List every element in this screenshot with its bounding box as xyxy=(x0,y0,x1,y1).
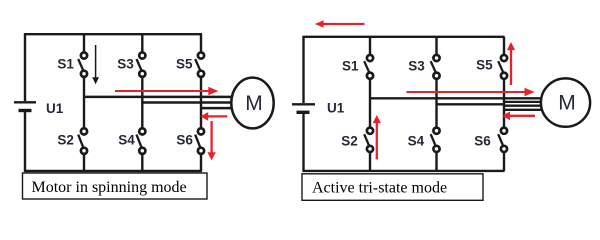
wire leg2 middle (node B, right circuit) xyxy=(435,79,437,128)
svg-text:S6: S6 xyxy=(176,132,193,147)
wire leg1 top (rail to S1) xyxy=(83,34,85,52)
switch S4 (right circuit) xyxy=(431,128,440,152)
black arrow (current through S1) xyxy=(92,45,99,84)
wire left rail top segment (battery positive to top rail) xyxy=(24,34,26,101)
svg-text:S3: S3 xyxy=(117,57,134,72)
wire left rail bottom segment (battery negative to bottom rail) xyxy=(24,112,26,171)
switch S3 (right circuit) xyxy=(431,55,440,79)
wire leg2 middle (S3 to S4, node B) xyxy=(141,77,143,128)
red arrow current into motor (right) xyxy=(115,87,218,96)
switch S3 xyxy=(137,52,146,77)
wire phase A (node A to motor) xyxy=(84,96,232,99)
svg-text:S3: S3 xyxy=(408,59,425,74)
battery U1 (right circuit) xyxy=(292,104,315,112)
switch S6 xyxy=(195,128,204,154)
red arrow current out of motor (left) xyxy=(200,112,227,121)
wire left rail bottom segment (right circuit) xyxy=(302,114,304,171)
svg-text:M: M xyxy=(245,92,262,115)
svg-text:S4: S4 xyxy=(118,132,135,147)
caption box: Active tri-state mode xyxy=(302,174,483,201)
switch S5 (right circuit) xyxy=(498,55,507,79)
wire leg2 bottom (S4 to rail, right circuit) xyxy=(435,152,437,171)
wire phase B (node B to S5 leg, right circuit) xyxy=(437,103,506,105)
wire bottom rail xyxy=(24,170,202,172)
svg-text:U1: U1 xyxy=(327,101,345,116)
svg-text:S6: S6 xyxy=(474,133,491,148)
red arrow current into motor (right circuit) xyxy=(407,88,535,97)
switch S5 xyxy=(195,52,204,77)
switch S4 xyxy=(137,128,146,154)
svg-text:M: M xyxy=(558,92,576,115)
wire leg3 middle (S5 to S6, node C) xyxy=(200,77,202,128)
svg-text:U1: U1 xyxy=(46,101,64,116)
wire leg3 top (rail to S5) xyxy=(200,34,202,52)
svg-text:S4: S4 xyxy=(408,133,425,148)
wire leg3 bottom (S6 to bottom rail) xyxy=(200,154,202,171)
wire leg2 top (rail to S3) xyxy=(141,34,143,52)
red arrow current up through S2 xyxy=(373,115,381,160)
svg-text:S1: S1 xyxy=(342,59,359,74)
svg-text:Motor in spinning mode: Motor in spinning mode xyxy=(32,179,187,196)
switch S2 xyxy=(78,128,87,154)
wire leg2 top (rail to S3, right circuit) xyxy=(435,37,437,55)
battery U1 xyxy=(14,102,36,110)
wire leg3 bottom (S6 to rail, right circuit) xyxy=(503,152,505,171)
motor M (left) xyxy=(231,78,273,129)
wire leg1 middle (node A, right circuit) xyxy=(369,79,371,128)
wire top rail (right circuit) xyxy=(302,36,504,38)
wire leg1 bottom (S2 to rail, right circuit) xyxy=(369,152,371,171)
svg-text:S5: S5 xyxy=(476,57,493,72)
switch S1 (right circuit) xyxy=(364,55,373,79)
svg-text:S5: S5 xyxy=(176,57,193,72)
switch S6 (right circuit) xyxy=(498,128,507,152)
switch S1 xyxy=(78,52,87,77)
wire bottom rail (right circuit) xyxy=(302,170,504,172)
wire leg3 top (rail to S5, right circuit) xyxy=(503,37,505,55)
wire motor bundle line 1 (right circuit) xyxy=(504,101,543,103)
red arrow current out of motor (left, right circuit) xyxy=(502,112,535,121)
red arrow current into top rail (left direction) xyxy=(315,20,365,27)
wire left rail top segment (battery to top rail, right circuit) xyxy=(302,37,304,103)
red arrow current down through S6 xyxy=(207,121,215,160)
red arrow current up through S5 xyxy=(507,42,515,85)
wire leg1 top (rail to S1, right circuit) xyxy=(369,37,371,55)
motor M (right) xyxy=(541,78,590,126)
wire motor bundle line 2 (right circuit) xyxy=(504,105,542,107)
wire phase B (node B to motor) xyxy=(142,101,232,104)
caption box: Motor in spinning mode xyxy=(23,173,208,199)
wire leg1 bottom (S2 to bottom rail) xyxy=(83,154,85,171)
svg-text:Active tri-state mode: Active tri-state mode xyxy=(312,180,447,197)
switch S2 (right circuit) xyxy=(364,128,373,152)
svg-text:S2: S2 xyxy=(57,132,74,147)
wire leg1 middle (S1 to S2, node A) xyxy=(83,77,85,128)
svg-text:S2: S2 xyxy=(341,133,358,148)
wire top rail xyxy=(24,33,202,35)
wire phase A (node A to motor, right circuit) xyxy=(370,97,544,99)
wire leg3 middle (node C, right circuit) xyxy=(503,79,505,128)
wire phase C (node C to motor, right circuit) xyxy=(504,109,543,111)
wire phase C (node C to motor) xyxy=(201,107,234,110)
svg-text:S1: S1 xyxy=(57,57,74,72)
wire leg2 bottom (S4 to bottom rail) xyxy=(141,154,143,171)
